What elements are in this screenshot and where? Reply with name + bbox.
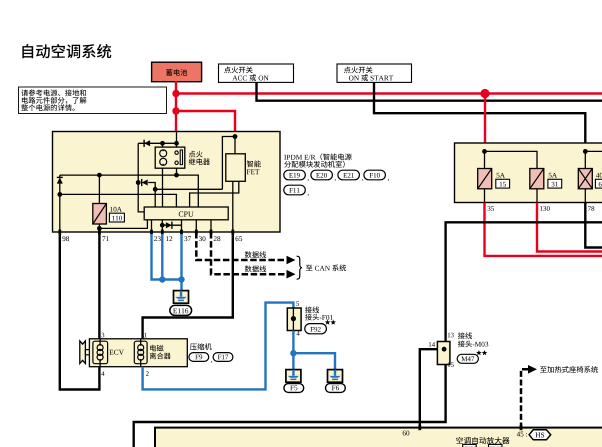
stars F92	[325, 320, 331, 325]
wire fuse130 out	[537, 203, 602, 252]
wire relay feed top	[176, 132, 178, 143]
junction node FET top	[233, 134, 238, 139]
junction fusebox right	[583, 149, 588, 154]
note line3	[21, 104, 28, 111]
brace to CAN	[297, 256, 302, 279]
ACC line2	[232, 76, 237, 81]
relay label 点火	[189, 151, 196, 158]
wire fuse box feed	[484, 94, 486, 152]
HS hexagon	[529, 430, 551, 440]
note line1	[21, 89, 28, 96]
clutch pin bottom	[140, 360, 142, 367]
ECV valve box	[93, 341, 108, 364]
pin 37 label	[184, 236, 187, 241]
wire node to railC	[222, 137, 235, 190]
CPU label	[179, 211, 183, 216]
wire battery feed vertical	[175, 81, 177, 132]
pin 12 tick	[161, 230, 164, 235]
wire relay switch bottom pin	[176, 168, 178, 175]
pin 28 tick	[210, 230, 213, 235]
joint connector M03 box	[437, 342, 450, 365]
wire fuse78 out	[585, 203, 602, 248]
relay contact bar	[180, 150, 182, 165]
wire M47 pin15 down	[134, 365, 446, 447]
junction rail-fusebox	[480, 89, 489, 98]
amp sub box 2	[489, 444, 503, 447]
fuse label 5A #2	[549, 173, 552, 178]
wire relay coil bottom pin	[162, 168, 164, 207]
data line label 1 数据线	[245, 251, 252, 258]
AC amplifier box	[155, 428, 602, 447]
comma3	[362, 179, 363, 181]
pin 28 label	[214, 236, 217, 241]
CPU box	[144, 207, 228, 220]
data line 30 (dashed)	[196, 232, 287, 260]
ground name F6	[326, 384, 346, 393]
pin 98 tick	[58, 230, 61, 235]
dashed wire to heated seat	[521, 369, 529, 428]
diode D4	[166, 222, 172, 228]
junction blue grounds	[290, 350, 296, 356]
wire railC to CPU	[154, 189, 156, 207]
diode D1 relay clamp	[144, 140, 150, 146]
fuse number 110	[112, 216, 114, 221]
ground name E116	[170, 305, 192, 315]
pin 71 label	[102, 236, 105, 241]
junction switch-top	[174, 141, 179, 146]
pin 13 label	[448, 333, 450, 337]
wire FET pin65 inside	[232, 181, 234, 232]
pin 35 label	[488, 206, 491, 211]
label 接头-F01	[305, 314, 312, 321]
wire D4 link	[162, 224, 181, 226]
wire pin12 blue	[161, 234, 163, 280]
comma5	[308, 194, 309, 196]
fuse block box	[455, 143, 602, 203]
comma2	[335, 179, 336, 181]
fuse label 5A #1	[497, 173, 500, 178]
fuse label 40A	[596, 173, 599, 178]
junction inside M47	[442, 347, 447, 352]
fuse 5A-15 body diagonal	[478, 169, 492, 189]
fuse label 10A	[110, 207, 113, 212]
diode D2 vertical	[57, 176, 63, 178]
joint connector F01 box	[287, 308, 301, 331]
amp label 空调自动放大器	[456, 437, 463, 444]
ACC line1 点火开关	[224, 66, 231, 73]
ECV pin bottom	[99, 360, 101, 367]
fuse 5A-31 body diagonal	[530, 169, 544, 189]
stars M47	[476, 350, 482, 355]
junction railA switch	[174, 173, 179, 178]
pin 15 label	[448, 362, 450, 366]
wire pin98 inside	[59, 194, 61, 232]
comma F9	[211, 361, 212, 363]
wire FET top	[234, 137, 236, 154]
connector E21	[338, 170, 360, 180]
fuse number 15 box	[496, 179, 510, 188]
connector E19	[284, 170, 306, 180]
pin 65 tick	[231, 230, 234, 235]
fuse number 15	[500, 182, 502, 187]
wire rail B right FET to CPU	[190, 181, 239, 207]
connector F9	[189, 353, 209, 362]
ground E116 symbol	[174, 291, 189, 304]
IPDM E/R module box	[53, 132, 281, 233]
ECV pins	[99, 339, 101, 345]
fusible link X	[578, 169, 592, 189]
wire D2 stub top	[59, 175, 61, 177]
HS label	[535, 433, 540, 438]
ignition switch START box	[337, 64, 412, 82]
ground F6 symbol	[328, 370, 343, 383]
label 至加热式座椅系统	[540, 366, 547, 372]
junction inside F92	[291, 316, 296, 321]
amp sub box 1	[463, 444, 477, 447]
wire fuse35 out	[485, 203, 602, 256]
compressor box	[89, 339, 187, 367]
label 接线 M47	[458, 332, 465, 339]
ignition switch ACC box	[219, 64, 294, 82]
START line1 点火开关	[344, 66, 351, 73]
connector E20	[311, 170, 333, 180]
junction battery-branch	[172, 107, 179, 114]
wire fuse1 to edge	[484, 189, 486, 203]
wire pin65 to clutch pin1	[143, 234, 233, 339]
pin 1 label	[144, 333, 146, 337]
junction fuse-CPU branch	[97, 226, 102, 231]
data line 28 (dashed)	[211, 232, 288, 274]
wire pin37 blue	[180, 234, 182, 291]
ground name F5	[284, 384, 304, 393]
fuse number 31	[552, 182, 555, 187]
wire pin98 to ECV pin4	[60, 234, 100, 390]
connector F92	[305, 324, 327, 334]
fuse number 6	[599, 182, 602, 187]
pin 45 label	[517, 432, 520, 437]
wire CPU pin28	[210, 220, 212, 232]
wire D1 to node	[137, 143, 139, 182]
junction fusebox left	[482, 149, 487, 154]
pulley symbol	[80, 341, 86, 364]
IPDM label line1	[284, 155, 286, 160]
wire through F92	[292, 308, 294, 331]
wire rail C	[155, 188, 222, 190]
junction diode D4 node	[160, 223, 165, 228]
fuse number 31 box	[548, 179, 562, 188]
title 自动空调系统	[22, 44, 33, 58]
junction coil-top	[160, 141, 165, 146]
label 接头-M03	[458, 340, 465, 347]
fuse number 110 box	[109, 213, 124, 222]
connector F10	[364, 170, 386, 180]
wire F92 top stub	[291, 303, 293, 308]
wire pin23 blue	[152, 234, 163, 280]
pin 2 label	[146, 371, 149, 376]
wire ACC feed	[257, 82, 602, 100]
junction blue 12	[159, 276, 165, 282]
wire fuse2 to edge	[536, 189, 538, 203]
pin 23 tick	[150, 230, 153, 235]
relay 点火继电器 box	[155, 147, 185, 168]
pin 30 label	[199, 236, 202, 241]
amp pin 60 tick	[418, 425, 421, 430]
wire fuse3 to edge	[584, 189, 586, 203]
wire D2 to railB	[59, 184, 61, 195]
ground F5 symbol	[286, 370, 301, 383]
wire clutch pin2 blue	[143, 303, 291, 390]
pin 60 label	[403, 431, 406, 436]
wire pin71 to ECV pin3	[98, 234, 100, 339]
pin 98 label	[62, 236, 65, 241]
wire fuse to CPU bottom	[99, 220, 147, 229]
clutch label 离合器	[150, 352, 156, 359]
relay label 继电器	[189, 158, 196, 164]
battery box	[152, 62, 202, 81]
pin 4 label	[101, 371, 104, 375]
arrowhead heated seat	[528, 365, 537, 374]
wire fuse feed	[98, 175, 100, 203]
wire CPU pin30	[195, 220, 197, 232]
wire relay coil rail	[138, 142, 176, 144]
relay coil	[162, 150, 164, 166]
ECV label	[109, 350, 113, 355]
fuse 5A-15 body	[478, 169, 492, 189]
pin 37 tick	[180, 230, 183, 235]
pin 12 label	[166, 236, 169, 241]
wire node down to CPU side	[138, 183, 144, 212]
wire fuse3 feed	[584, 151, 586, 168]
wire M47 pin14 to amp60	[420, 349, 438, 428]
arrowhead CAN 1	[287, 256, 296, 265]
fuse 10A body	[93, 204, 107, 225]
junction railA fuse	[97, 173, 102, 178]
fuse 5A-31 body	[530, 169, 544, 189]
pin 65 label	[236, 236, 239, 241]
data line label 2 数据线	[245, 265, 252, 272]
arrowhead CAN 2	[287, 270, 296, 279]
connector F17	[213, 353, 233, 362]
wire fusebox right stub	[585, 150, 602, 152]
wire battery rail right	[176, 92, 602, 94]
FET label 智能	[247, 160, 253, 167]
wire CPU pin37	[181, 220, 183, 232]
wire to F6 ground	[293, 353, 335, 369]
junction railB left	[57, 192, 62, 197]
wire D3 link	[148, 183, 155, 190]
relay contact circles	[175, 151, 178, 154]
junction railC left	[153, 187, 158, 192]
fusible link 40A body	[578, 169, 592, 189]
comma4	[388, 179, 389, 181]
pin 30 tick	[195, 230, 198, 235]
note line2	[22, 97, 28, 104]
pin 23 label	[154, 236, 157, 241]
wire switch top pin	[176, 143, 178, 147]
junction blue 37	[178, 276, 184, 282]
diode D3	[142, 180, 148, 186]
smart FET box	[226, 154, 246, 182]
wire fuse1 feed	[484, 151, 486, 168]
junction battery-rail	[172, 90, 179, 97]
comma1	[308, 179, 309, 181]
amp pin 45 tick	[520, 425, 523, 430]
clutch coil box	[134, 341, 147, 364]
pin 3 label	[102, 333, 105, 338]
wire net to M47 pin13	[446, 222, 602, 341]
wire fuse bottom	[98, 224, 100, 232]
wire blue link	[162, 278, 181, 280]
connector F11	[284, 185, 306, 195]
pin 130 label	[540, 206, 542, 211]
pin 5 label	[296, 301, 299, 306]
clutch pin top	[140, 339, 142, 345]
compressor label 压缩机	[190, 344, 197, 350]
fuse 10A diagonal	[93, 204, 107, 225]
wire F92 to grounds	[292, 331, 294, 370]
wire rail B left to CPU	[60, 194, 177, 207]
junction D3 node	[136, 180, 141, 185]
pin 71 tick	[98, 230, 101, 235]
label 至 CAN 系统	[306, 265, 313, 271]
battery label 蓄电池	[166, 69, 172, 76]
pin 78 label	[588, 206, 591, 211]
clutch coil	[140, 345, 142, 361]
wire fusebox link	[485, 151, 538, 168]
IPDM label line2	[284, 161, 291, 168]
label 接线	[305, 306, 312, 313]
START line2	[349, 76, 354, 81]
FET label FET	[247, 169, 251, 174]
wire START feed	[374, 82, 585, 151]
connector M47	[457, 354, 478, 363]
wire battery branch to FET	[176, 111, 235, 137]
wire rail A	[60, 175, 199, 207]
pin 14 label	[429, 342, 431, 346]
wire CPU pin23	[151, 220, 153, 232]
ECV coil	[99, 345, 101, 361]
wire CPU pin12	[161, 220, 163, 232]
pin 4 label F92	[297, 331, 300, 335]
note box frame	[19, 87, 167, 114]
clutch label 电磁	[150, 345, 156, 352]
fuse number 6 box	[595, 179, 602, 188]
wire coil top pin	[162, 143, 164, 147]
